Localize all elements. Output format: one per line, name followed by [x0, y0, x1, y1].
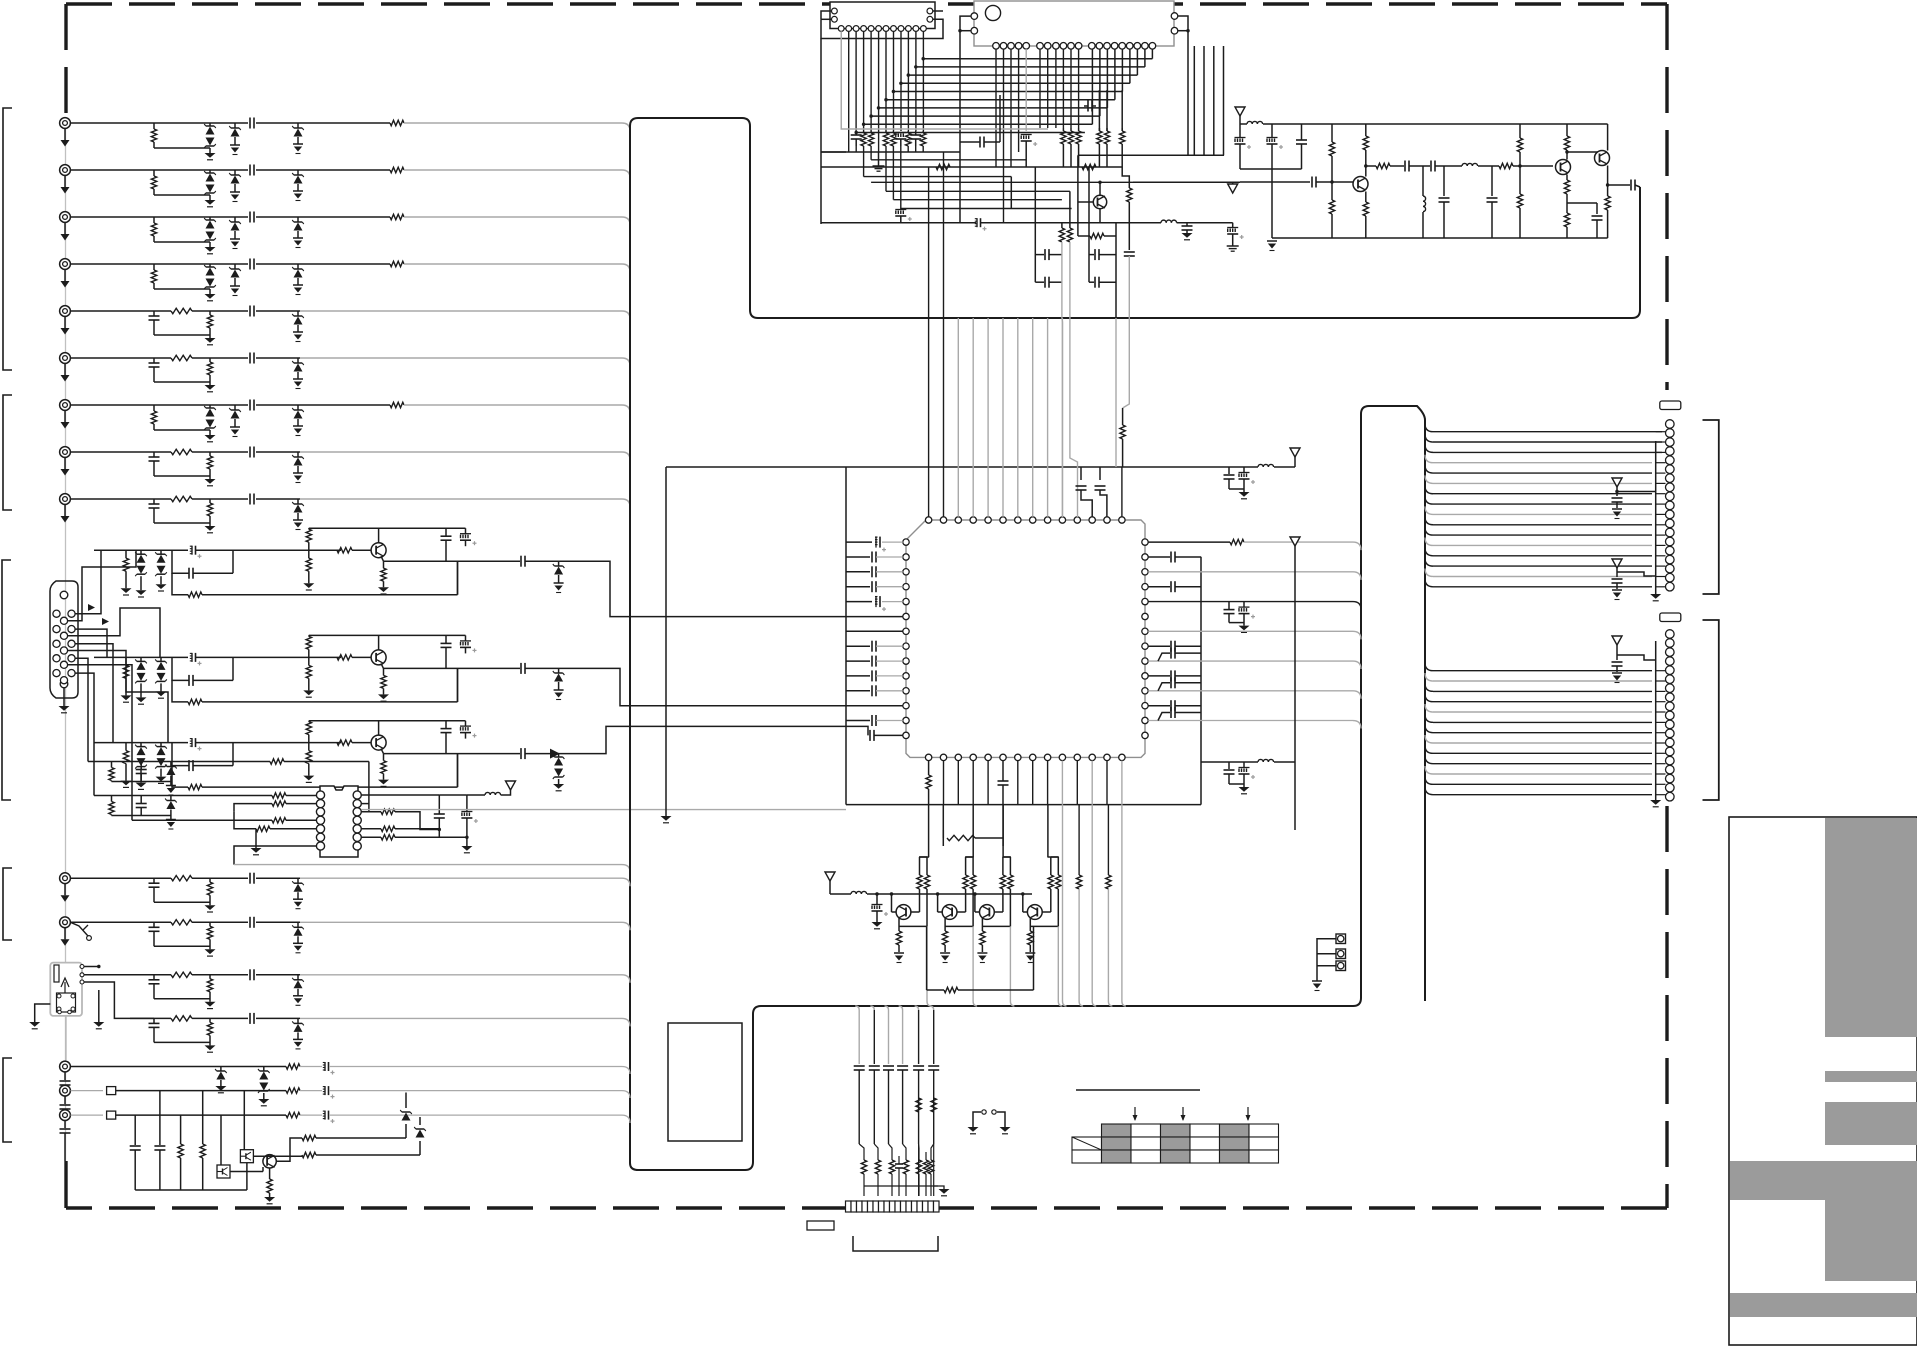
CN1 bracket: [1703, 420, 1719, 594]
headphone jack row: [60, 916, 630, 956]
capacitors at U1 top right: [1076, 408, 1126, 517]
input jack J2 row with resistor, suppressor diodes, coupling capacitor: [60, 164, 630, 207]
input group bracket 3: [2, 560, 11, 800]
CN2 bracket: [1703, 620, 1719, 800]
S-video connector: [50, 963, 84, 1016]
U1 pins: [903, 517, 1148, 761]
input jack J6 row with RC filter and diode: [60, 305, 630, 345]
op-amp IC U3 (14-pin): [316, 786, 361, 857]
transistor Q5 buffer: [1035, 155, 1243, 318]
connector CN2 label box: [1660, 613, 1681, 622]
RGB channel output coupling caps and clamp diodes: [521, 556, 903, 791]
audio L row network: [71, 1062, 631, 1106]
input group bracket 5: [3, 1058, 12, 1142]
CN3 bracket: [853, 1236, 938, 1251]
video IC U4 (top-left): [830, 2, 935, 31]
resistor bank under U5: [821, 90, 1125, 170]
input jack J7 row with RC filter and diode: [60, 352, 630, 392]
VGA connector shield ground: [59, 688, 70, 713]
interconnect mesh: [841, 31, 1152, 222]
resistor below U1: [943, 805, 1003, 846]
input group bracket 1: [3, 108, 12, 370]
tuner IC U5 (top-right): [971, 1, 1178, 49]
CN2 pin stubs: [1656, 671, 1666, 795]
RGB amplifier channel R (Q1): [94, 528, 520, 597]
driver transistors Q9-Q12 bank: [825, 805, 1126, 1006]
gray bus wire: [841, 31, 1048, 129]
bus exit wires to connectors: [1425, 424, 1662, 795]
U1 left pin decoupling: [661, 467, 1241, 823]
S-video grounds: [29, 990, 104, 1060]
CN1 bypass 1: [1612, 478, 1656, 519]
CN1 bypass 2: [1612, 559, 1656, 600]
U1 top pin wires to upper section: [929, 152, 1130, 517]
bus trunk outline (bottom): [630, 1006, 1353, 1170]
CN3 label box: [807, 1221, 834, 1230]
U4 collar wiring: [821, 11, 943, 224]
clamp network row B: [109, 796, 177, 830]
audio input jacks: [60, 1061, 71, 1161]
audio R row network: [71, 1086, 631, 1099]
U5 side wiring: [958, 16, 1224, 155]
input group bracket 4: [3, 868, 12, 940]
input jack J9 row with RC filter and diode: [60, 493, 630, 533]
bus trunk outline (left/top): [630, 118, 1640, 1163]
VGA pin 1 marker arrow: [88, 604, 95, 611]
S-video C row: [84, 982, 630, 1052]
supply filter at U1 top right: [1224, 448, 1301, 499]
decoupling bank under U4: [821, 131, 960, 171]
input jack J3 row with resistor, suppressor diodes, coupling capacitor: [60, 211, 630, 254]
input group bracket 2: [3, 395, 12, 510]
RF amplifier Q6/Q7/Q8 stage: [1235, 107, 1641, 251]
bus trunk outline (right vertical): [1353, 406, 1425, 1006]
termination network above CN3: [854, 1006, 950, 1196]
U1 bottom pin wires: [926, 761, 1122, 805]
connector CN1 (pin header): [1650, 420, 1674, 601]
input jack J1 row with resistor, suppressor diodes, coupling capacitor: [60, 117, 630, 160]
bottom connector CN3: [846, 1201, 940, 1212]
clamp network row A: [109, 762, 177, 796]
legend sidebar table: [1729, 817, 1917, 1345]
audio mute row network: [71, 1111, 631, 1124]
connector CN1 label box: [1660, 401, 1681, 410]
supply filter at U1 bottom right: [1201, 537, 1300, 830]
VGA pin 2 marker arrow: [102, 618, 109, 625]
jumper switch S1: [968, 1110, 1011, 1134]
wires U1 to right bus: [0, 0, 1, 1]
S-video Y row: [84, 965, 630, 1009]
input jack J8 row with RC filter and diode: [60, 446, 630, 486]
connector CN2 (pin header): [1650, 630, 1674, 807]
composite video input row: [60, 872, 630, 912]
microcontroller U1 (QFP) body: [906, 520, 1145, 757]
note box (blank): [668, 1023, 742, 1141]
staggered bus wires: [821, 130, 1161, 231]
CN2 bypass: [1612, 636, 1656, 683]
signal timing table: [1072, 1090, 1279, 1163]
RGB amplifier channel B (Q3): [94, 721, 520, 790]
CN1 pin stubs: [1656, 432, 1666, 587]
RGB amplifier channel G (Q2): [94, 635, 520, 704]
U1 right pin caps: [1148, 539, 1361, 804]
VGA harness wires: [68, 550, 169, 820]
mid components: [895, 95, 1096, 223]
input jack J5 row with resistor, suppressor diodes, coupling capacitor: [60, 399, 630, 442]
connector ground chain: [65, 123, 67, 1161]
audio mute transistors: [130, 1091, 426, 1204]
input jack J4 row with resistor, suppressor diodes, coupling capacitor: [60, 258, 630, 301]
U3 input network: [88, 759, 630, 872]
U3 output network with supply flag: [361, 781, 846, 853]
VGA D-sub 15 connector: [50, 581, 78, 698]
border frame (dashed): [66, 4, 1667, 1208]
test point pads TP1-TP3: [1312, 934, 1346, 991]
